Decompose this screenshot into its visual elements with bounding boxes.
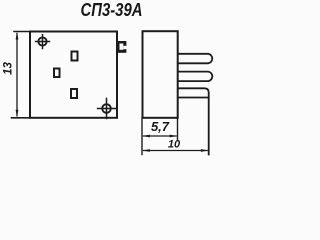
terminal hole R3 (bottom) bbox=[71, 89, 77, 98]
svg-text:10: 10 bbox=[168, 139, 181, 151]
terminal hole R1 (top) bbox=[72, 52, 78, 61]
pin 2 (middle) bbox=[178, 72, 212, 82]
pin 3 (bottom) with extension to dim 10 bbox=[178, 88, 209, 154]
rotor slot tab on right edge bbox=[117, 41, 127, 53]
dimension line 5,7 bbox=[144, 135, 177, 137]
dimension line 13 (vertical, arrows both ends) bbox=[16, 34, 18, 116]
extension line left (body bottom-left) bbox=[141, 118, 143, 155]
front view body outline bbox=[30, 32, 117, 118]
svg-text:СП3-39А: СП3-39А bbox=[81, 0, 143, 20]
dimension line 10 bbox=[144, 150, 208, 152]
crosshair mark C1 (top-left) bbox=[38, 37, 46, 45]
top edge extension line bbox=[14, 31, 30, 33]
extension line right edge for 5,7 bbox=[177, 118, 179, 140]
crosshair mark C2 (bottom-right) bbox=[102, 104, 111, 113]
side view body outline bbox=[143, 31, 178, 118]
svg-text:5,7: 5,7 bbox=[151, 119, 170, 134]
bottom edge extension line bbox=[12, 117, 31, 119]
terminal hole R2 (middle-left) bbox=[54, 69, 60, 78]
svg-text:13: 13 bbox=[3, 62, 15, 75]
pin 1 (top) bbox=[178, 54, 212, 64]
